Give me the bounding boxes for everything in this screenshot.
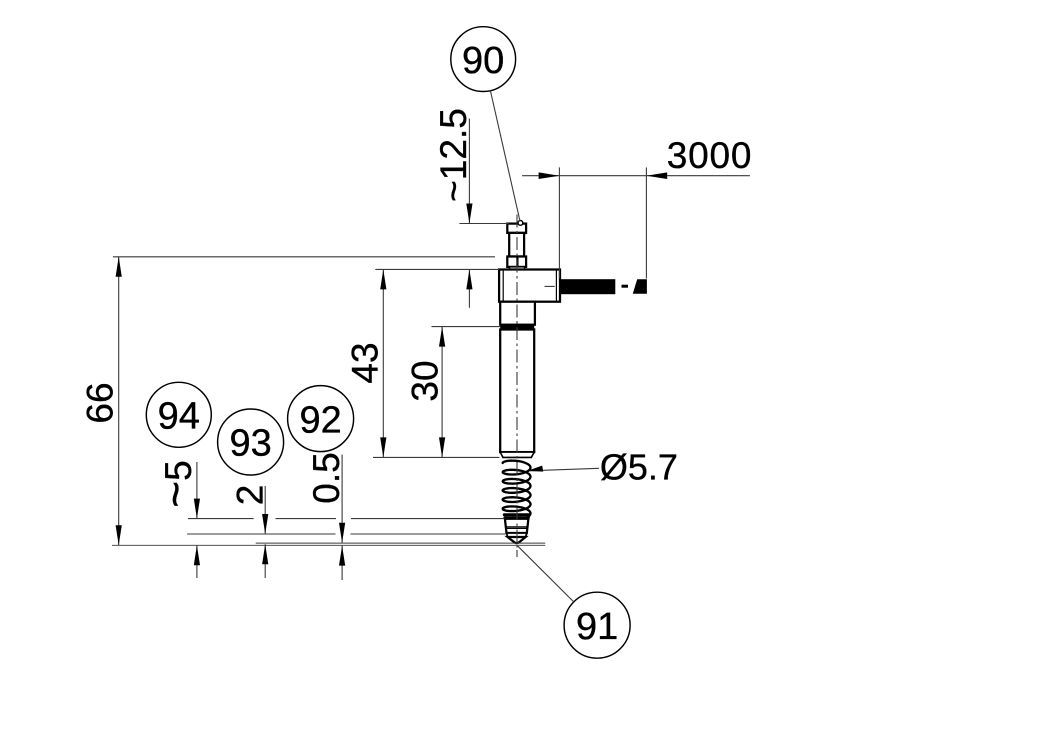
extension line 43/30 bottom (373, 456, 499, 458)
sensor tip circle (518, 221, 523, 226)
cable break dash (622, 285, 629, 288)
cable end piece (633, 279, 647, 294)
svg-text:Ø5.7: Ø5.7 (600, 447, 678, 488)
svg-text:66: 66 (80, 382, 121, 423)
neck (509, 233, 524, 257)
housing (499, 270, 560, 302)
reference line C2 (112, 544, 545, 546)
dimension ~12.5 (466, 119, 472, 308)
balloon 92 (288, 386, 354, 452)
dimension 66 (116, 257, 122, 546)
svg-text:92: 92 (299, 399, 341, 441)
tip cap body groove lines (506, 526, 528, 528)
housing centerline dash (545, 285, 555, 287)
cable (560, 279, 615, 294)
centerline vertical (516, 215, 518, 558)
dimension 0.5 (339, 455, 345, 580)
extension line housing top (for ~12.5 and 43) (375, 268, 499, 270)
svg-text:90: 90 (462, 40, 504, 82)
tip cap washer ring 1 (503, 513, 531, 516)
black seal band (500, 325, 535, 330)
reference line A (188, 518, 254, 520)
tip cap shoulder (507, 533, 527, 537)
balloon 94 (146, 382, 211, 447)
upper neck below housing (500, 302, 535, 325)
extension line 66 top (113, 256, 495, 258)
nut step (510, 267, 525, 270)
leader 91 (518, 546, 574, 602)
dimension ~5 (194, 462, 200, 578)
dimension 2 (262, 486, 268, 578)
main cylinder (500, 330, 534, 453)
dimension 30 (439, 327, 445, 458)
tip cap washer ring 2 (503, 516, 530, 519)
svg-text:~12.5: ~12.5 (433, 108, 474, 202)
extension line top cap (for ~12.5) (459, 223, 508, 225)
cylinder chamfer (500, 452, 534, 457)
tip cone (508, 537, 526, 543)
svg-text:94: 94 (158, 396, 200, 438)
dimension 3000 (522, 167, 750, 278)
top cap (507, 224, 526, 233)
reference line C1 (256, 542, 546, 544)
svg-text:93: 93 (229, 423, 271, 465)
reference line B (187, 533, 335, 535)
svg-text:0.5: 0.5 (306, 452, 347, 503)
balloon 91 (564, 592, 630, 658)
dimension 43 (380, 269, 386, 457)
svg-text:30: 30 (405, 360, 446, 401)
diameter label leader (527, 466, 599, 472)
leader 90 (490, 91, 520, 221)
hex nut (507, 257, 526, 267)
extension line 30 top (432, 326, 501, 328)
balloon 93 (218, 409, 284, 475)
svg-text:43: 43 (345, 342, 386, 383)
svg-text:3000: 3000 (667, 135, 753, 176)
tip cap body (505, 519, 529, 533)
svg-text:2: 2 (230, 485, 271, 506)
svg-text:91: 91 (576, 606, 618, 648)
balloon 90 (451, 27, 516, 92)
spring (503, 461, 531, 521)
